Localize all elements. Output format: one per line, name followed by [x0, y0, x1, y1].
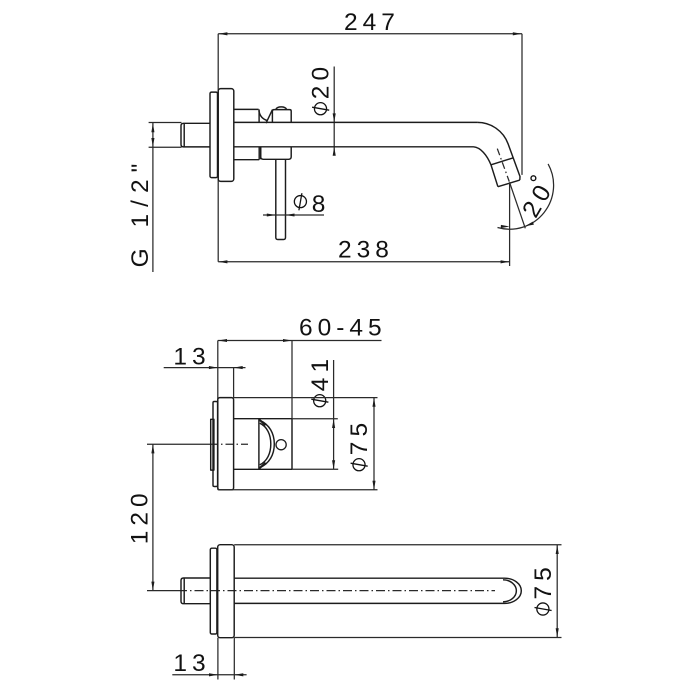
svg-text:20: 20 [308, 62, 335, 99]
dimension 60-45 [218, 315, 387, 343]
dimension phi75 (middle plate) [218, 398, 378, 490]
svg-text:238: 238 [338, 237, 394, 264]
label phi75 middle [346, 418, 373, 471]
svg-text:75: 75 [530, 562, 557, 599]
extension line right (spout tip outer edge) [521, 34, 523, 175]
threaded inlet nipple [181, 578, 211, 604]
escutcheon plate [218, 398, 234, 490]
label phi8 [294, 191, 330, 218]
dimension 120 (between centerlines) [151, 444, 154, 590]
extension line knob front [291, 341, 293, 419]
svg-text:60-45: 60-45 [299, 315, 387, 342]
label 20deg [517, 176, 559, 222]
spout end face [498, 180, 520, 187]
arc arrowheads [501, 225, 510, 228]
dimension G 1/2" (inlet thread) [149, 123, 182, 273]
centerline (dash-dot) [147, 590, 495, 592]
wall flange (rear ring) [210, 92, 218, 178]
escutcheon plate [218, 545, 235, 638]
label phi75 plan [530, 562, 557, 615]
wall flange [210, 548, 217, 634]
spout end junction line [491, 158, 513, 165]
svg-text:8: 8 [312, 191, 331, 218]
cartridge lever cap on top [266, 107, 291, 123]
svg-text:G 1/2": G 1/2" [127, 157, 154, 268]
dimension 238 [218, 237, 509, 264]
small step ring [211, 419, 214, 470]
svg-text:13: 13 [173, 650, 210, 677]
extension line from outlet down to 238 [509, 184, 511, 267]
svg-text:247: 247 [344, 9, 400, 36]
dimension phi8 (rod) [263, 213, 324, 216]
valve body outline [234, 109, 267, 159]
dimension 247 [218, 9, 522, 36]
label G 1/2" [127, 157, 154, 268]
dimension phi75 (plan plate) [234, 545, 561, 638]
dimension phi20 (spout tube diameter) [333, 67, 336, 156]
wall line [217, 341, 219, 490]
handle base block below body [261, 147, 292, 159]
handle rod (hanging lever) [276, 159, 286, 239]
spout axis centerline (dash-dot) [497, 149, 509, 182]
escutcheon plate (side) [218, 89, 234, 182]
label 120 [127, 488, 154, 544]
dimension phi41 (knob) [292, 360, 338, 469]
spout tube bottom line [234, 146, 474, 148]
lever bow (seen end-on) [259, 420, 274, 469]
svg-text:41: 41 [307, 354, 334, 391]
dimension 13 (plate thickness) [164, 344, 246, 398]
pin hole [276, 440, 286, 450]
label phi41 [307, 354, 334, 407]
centerline (dash-dot) [147, 443, 248, 445]
wall flange [213, 402, 218, 487]
dimension 13 (plan plate thickness) [172, 638, 246, 680]
svg-text:13: 13 [173, 344, 210, 371]
knob cylinder silhouette [234, 419, 292, 470]
spout bend inner curve [474, 147, 498, 187]
spout tube (plan) [234, 578, 521, 603]
label phi20 [308, 62, 335, 115]
spout bend outer curve [477, 122, 520, 180]
20 degree leg (axis extension) [510, 182, 526, 228]
svg-text:120: 120 [127, 488, 154, 544]
threaded inlet nipple G1/2 [181, 123, 211, 147]
20 degree arc [498, 164, 554, 229]
wall line [217, 34, 219, 262]
svg-text:75: 75 [346, 418, 373, 455]
spout tube top line [234, 121, 478, 123]
